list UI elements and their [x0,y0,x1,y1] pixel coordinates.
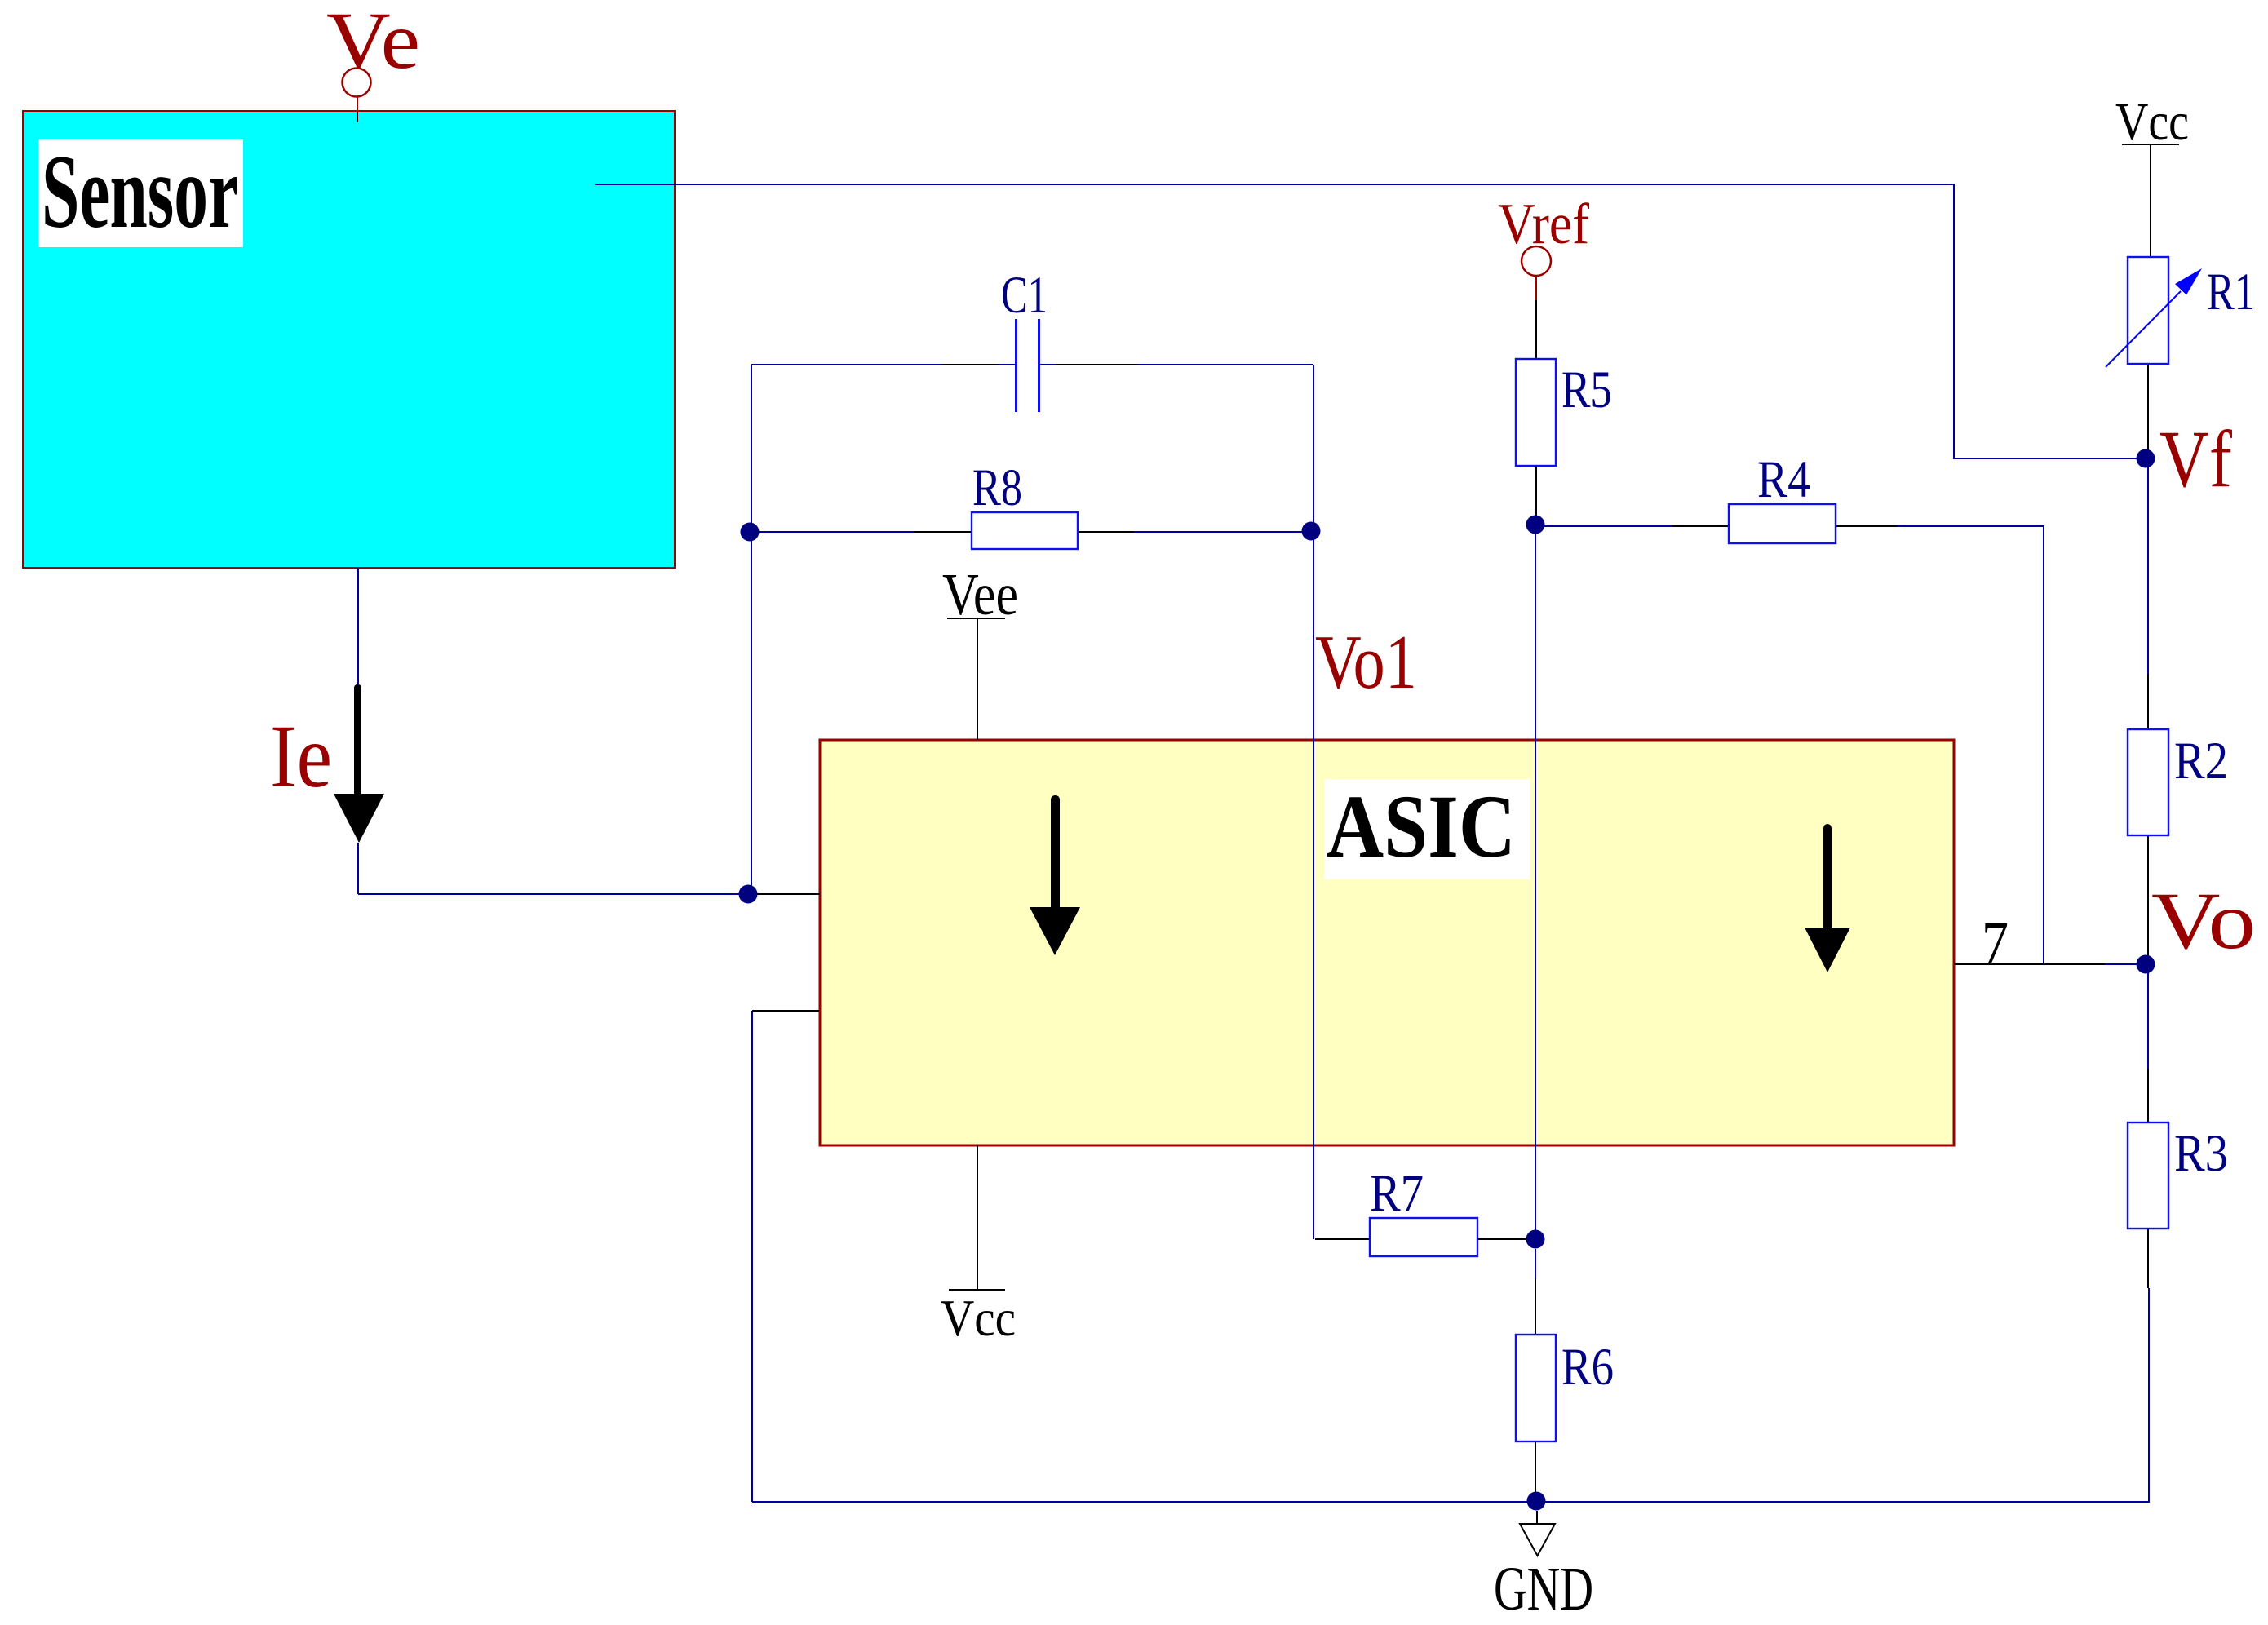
svg-text:R5: R5 [1561,361,1612,419]
svg-text:Vcc: Vcc [2115,92,2189,152]
svg-text:R2: R2 [2174,732,2228,790]
svg-text:Sensor: Sensor [42,134,238,250]
svg-text:Ve: Ve [326,0,420,86]
svg-text:ASIC: ASIC [1327,777,1516,876]
svg-text:Vf: Vf [2159,414,2233,504]
svg-text:Vo: Vo [2151,875,2256,966]
svg-text:Vo1: Vo1 [1315,620,1417,705]
svg-text:R8: R8 [972,458,1022,517]
svg-text:Vcc: Vcc [941,1289,1016,1347]
svg-text:Ie: Ie [270,706,332,806]
svg-text:R3: R3 [2174,1124,2228,1183]
svg-text:R1: R1 [2207,263,2255,321]
svg-text:R6: R6 [1561,1338,1614,1397]
svg-text:7: 7 [1982,910,2009,977]
svg-text:R7: R7 [1370,1164,1424,1223]
svg-text:Vee: Vee [942,561,1018,627]
svg-text:C1: C1 [1001,266,1048,325]
svg-text:Vref: Vref [1498,193,1589,256]
svg-text:GND: GND [1494,1555,1593,1623]
svg-text:R4: R4 [1757,450,1810,509]
